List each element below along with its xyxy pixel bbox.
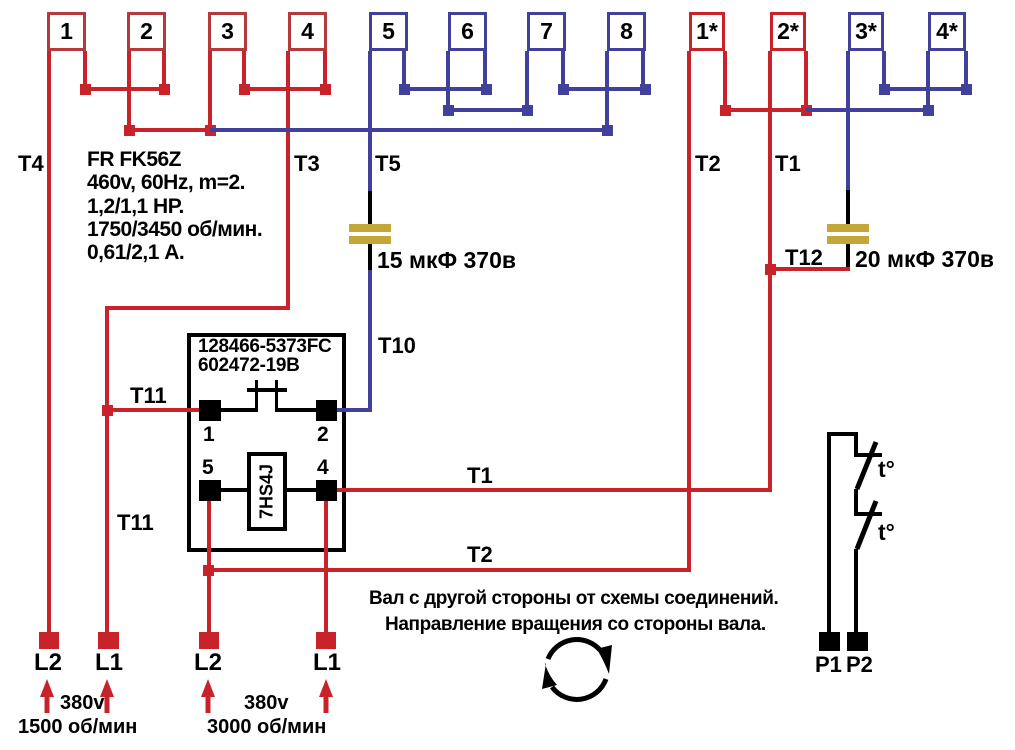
junction 2*R bbox=[801, 105, 812, 116]
capacitor C1 top lead black bbox=[368, 191, 372, 224]
wire box8 right drop bbox=[641, 51, 645, 91]
wire pin4 vertical to L1 bbox=[324, 501, 328, 634]
wire box8 left drop bbox=[605, 51, 609, 132]
junction box7L bbox=[522, 105, 533, 116]
wire T5 vertical upper blue bbox=[368, 51, 372, 192]
relay text line1 bbox=[198, 336, 331, 358]
label L1 B bbox=[313, 649, 341, 677]
thermal switch top horizontal bbox=[827, 432, 858, 436]
rotation arrow bottom head bbox=[542, 663, 557, 689]
wire blue jumper 5-6 bbox=[404, 87, 486, 91]
terminal box 5 bbox=[369, 12, 408, 51]
note text line 2 bbox=[385, 614, 766, 636]
terminal box 6 bbox=[448, 12, 487, 51]
label 1500 rpm bbox=[18, 716, 137, 739]
wire 2* left vertical bbox=[768, 51, 772, 492]
terminal L2 pad A bbox=[39, 632, 59, 649]
wire box2 left drop bbox=[127, 51, 131, 132]
wire blue jumper 2*-4* bbox=[806, 108, 928, 112]
terminal box 1* bbox=[689, 12, 725, 51]
relay pin 4 pad bbox=[316, 480, 337, 501]
note text line 1 bbox=[369, 588, 778, 610]
terminal box 8 bbox=[607, 12, 646, 51]
label T1 top bbox=[775, 151, 801, 177]
capacitor C2 bottom lead black bbox=[846, 244, 850, 271]
wire pin2 to T10 blue bbox=[337, 408, 370, 412]
label P2 bbox=[846, 652, 873, 678]
relay pin 5 pad bbox=[199, 480, 221, 501]
switch post left bbox=[255, 380, 258, 412]
PTC lead right bbox=[285, 488, 316, 492]
wire left vertical to L1 bbox=[105, 306, 109, 634]
wire blue jumper 6-7 lower bbox=[448, 108, 527, 112]
terminal P2 pad bbox=[847, 632, 868, 651]
wire blue main bus bbox=[210, 128, 609, 132]
thermal tick 1 bbox=[854, 453, 882, 457]
label T5 bbox=[375, 151, 401, 177]
junction T11 bbox=[102, 405, 113, 416]
rotation arrow bottom arc bbox=[552, 679, 606, 699]
terminal L1 pad A bbox=[98, 632, 119, 649]
wire pin5 vertical to L2 bbox=[207, 501, 211, 634]
thermal tick 2 bbox=[854, 512, 882, 516]
junction red bus left bbox=[124, 125, 135, 136]
terminal box 2 bbox=[127, 12, 166, 51]
wire T3 vertical box4 left bbox=[286, 51, 290, 310]
label L1 A bbox=[95, 649, 123, 677]
junction box6R bbox=[481, 84, 492, 95]
junction 3*R bbox=[879, 84, 890, 95]
thermal stub 2 bbox=[854, 489, 858, 516]
terminal box 3 bbox=[208, 12, 247, 51]
wire blue jumper 7-8 bbox=[563, 87, 645, 91]
label L2 B bbox=[194, 649, 222, 677]
wire red jumper 1-2 bbox=[85, 87, 165, 91]
label T10 bbox=[378, 333, 416, 359]
switch crossbar bbox=[247, 388, 287, 392]
label T11 upper bbox=[130, 383, 167, 409]
switch lead right bbox=[275, 408, 316, 412]
relay pin label 5 bbox=[202, 456, 214, 480]
wire red jumper 1*-2* bbox=[725, 108, 806, 112]
junction box8R bbox=[640, 84, 651, 95]
terminal box 7 bbox=[527, 12, 566, 51]
label C2 value bbox=[855, 246, 994, 273]
junction box7R bbox=[558, 84, 569, 95]
wire 1* right drop bbox=[723, 51, 727, 112]
supply arrow 1 bbox=[45, 694, 50, 713]
wire box2 right drop bbox=[162, 51, 166, 91]
thermal switch left vertical bbox=[827, 432, 831, 632]
label T12 bbox=[785, 245, 823, 271]
terminal box 3* bbox=[848, 12, 884, 51]
junction box2R-jumper bbox=[159, 84, 170, 95]
junction box4R-jumper bbox=[320, 84, 331, 95]
label T2 top bbox=[695, 151, 721, 177]
terminal L1 pad B bbox=[316, 632, 336, 649]
wire box3 right drop bbox=[242, 51, 246, 91]
wire 3* right drop bbox=[882, 51, 886, 91]
thermal stub 1 bbox=[854, 432, 858, 456]
wire box7 left drop bbox=[525, 51, 529, 112]
wire 3* left vertical bbox=[846, 51, 850, 190]
wire box4 right drop bbox=[323, 51, 327, 91]
thermal bottom vertical bbox=[854, 549, 858, 632]
switch post right bbox=[275, 380, 278, 412]
terminal box 1 bbox=[47, 12, 86, 51]
wire 2* right drop bbox=[804, 51, 808, 112]
label 3000 rpm bbox=[207, 716, 326, 739]
wire blue jumper 3*-4* bbox=[884, 87, 966, 91]
junction T2 bbox=[203, 565, 214, 576]
wire box6 right drop bbox=[483, 51, 487, 91]
wire T12 horizontal bbox=[770, 267, 850, 271]
capacitor C1 plate bottom bbox=[349, 236, 391, 244]
supply arrow 4 bbox=[324, 694, 329, 713]
relay text line2 bbox=[198, 355, 300, 377]
capacitor C1 plate top bbox=[349, 224, 391, 232]
relay pin label 2 bbox=[317, 423, 329, 447]
label T3 bbox=[294, 151, 320, 177]
wire box6 left drop bbox=[446, 51, 450, 112]
relay pin label 1 bbox=[203, 423, 215, 447]
terminal P1 pad bbox=[819, 632, 840, 651]
label t deg 2 bbox=[878, 519, 895, 546]
PTC 7HS4J box bbox=[247, 452, 287, 531]
wire T4 vertical from box1 left to L2 bbox=[47, 51, 51, 634]
relay pin label 4 bbox=[317, 456, 329, 480]
junction box6L bbox=[443, 105, 454, 116]
wire box5 right drop bbox=[402, 51, 406, 91]
PTC lead left bbox=[221, 488, 249, 492]
capacitor C2 top lead black bbox=[846, 190, 850, 224]
label t deg 1 bbox=[878, 456, 895, 483]
rotation arrow top head bbox=[598, 645, 612, 674]
relay box U1 bbox=[187, 333, 346, 552]
junction red-blue bus bbox=[205, 125, 216, 136]
junction box3R-jumper bbox=[239, 84, 250, 95]
relay pin 2 pad bbox=[316, 400, 337, 421]
wire red jumper 3-4 bbox=[244, 87, 325, 91]
supply arrow 2 bbox=[105, 694, 110, 713]
wire 4* left drop bbox=[926, 51, 930, 112]
junction 4*L bbox=[923, 105, 934, 116]
motor info text block bbox=[87, 148, 262, 264]
junction box8L-bus bbox=[602, 125, 613, 136]
label L2 A bbox=[34, 649, 62, 677]
label T1 mid bbox=[467, 463, 493, 489]
wire 1* left vertical bbox=[687, 51, 691, 572]
wire T11 horizontal to pin1 bbox=[107, 408, 199, 412]
terminal box 2* bbox=[770, 12, 806, 51]
capacitor C1 bottom lead black bbox=[368, 244, 372, 270]
label C1 value bbox=[377, 247, 516, 274]
wire box7 right drop bbox=[561, 51, 565, 91]
PTC 7HS4J label bbox=[228, 472, 307, 512]
junction box1R-jumper bbox=[80, 84, 91, 95]
label T4 bbox=[18, 151, 44, 177]
junction box5R bbox=[399, 84, 410, 95]
capacitor C2 plate top bbox=[827, 224, 869, 232]
wire T1 long horizontal bbox=[337, 488, 772, 492]
wire 4* right drop bbox=[964, 51, 968, 91]
terminal box 4* bbox=[928, 12, 966, 51]
label T11 lower bbox=[117, 510, 154, 536]
relay pin 1 pad bbox=[199, 400, 221, 421]
junction 4*R bbox=[961, 84, 972, 95]
capacitor C2 plate bottom bbox=[827, 236, 869, 244]
junction T12 bbox=[765, 264, 776, 275]
junction 1*R bbox=[720, 105, 731, 116]
thermal blade 1 bbox=[857, 442, 876, 489]
wire box1 right drop bbox=[83, 51, 87, 91]
wire T2 long horizontal bbox=[207, 568, 691, 572]
wire red bus segment bbox=[129, 128, 210, 132]
supply arrow 3 bbox=[206, 694, 211, 713]
wire T3 horizontal bbox=[105, 306, 290, 310]
label P1 bbox=[815, 652, 842, 678]
terminal L2 pad B bbox=[199, 632, 219, 649]
wire box3 left drop bbox=[208, 51, 212, 132]
terminal box 4 bbox=[288, 12, 327, 51]
label T2 mid bbox=[467, 542, 493, 568]
label 380v A bbox=[60, 692, 105, 715]
wire T10 vertical blue lower bbox=[368, 270, 372, 412]
rotation arrow top arc bbox=[548, 640, 600, 659]
thermal blade 2 bbox=[857, 501, 876, 549]
switch lead left bbox=[221, 408, 258, 412]
label 380v B bbox=[244, 692, 289, 715]
